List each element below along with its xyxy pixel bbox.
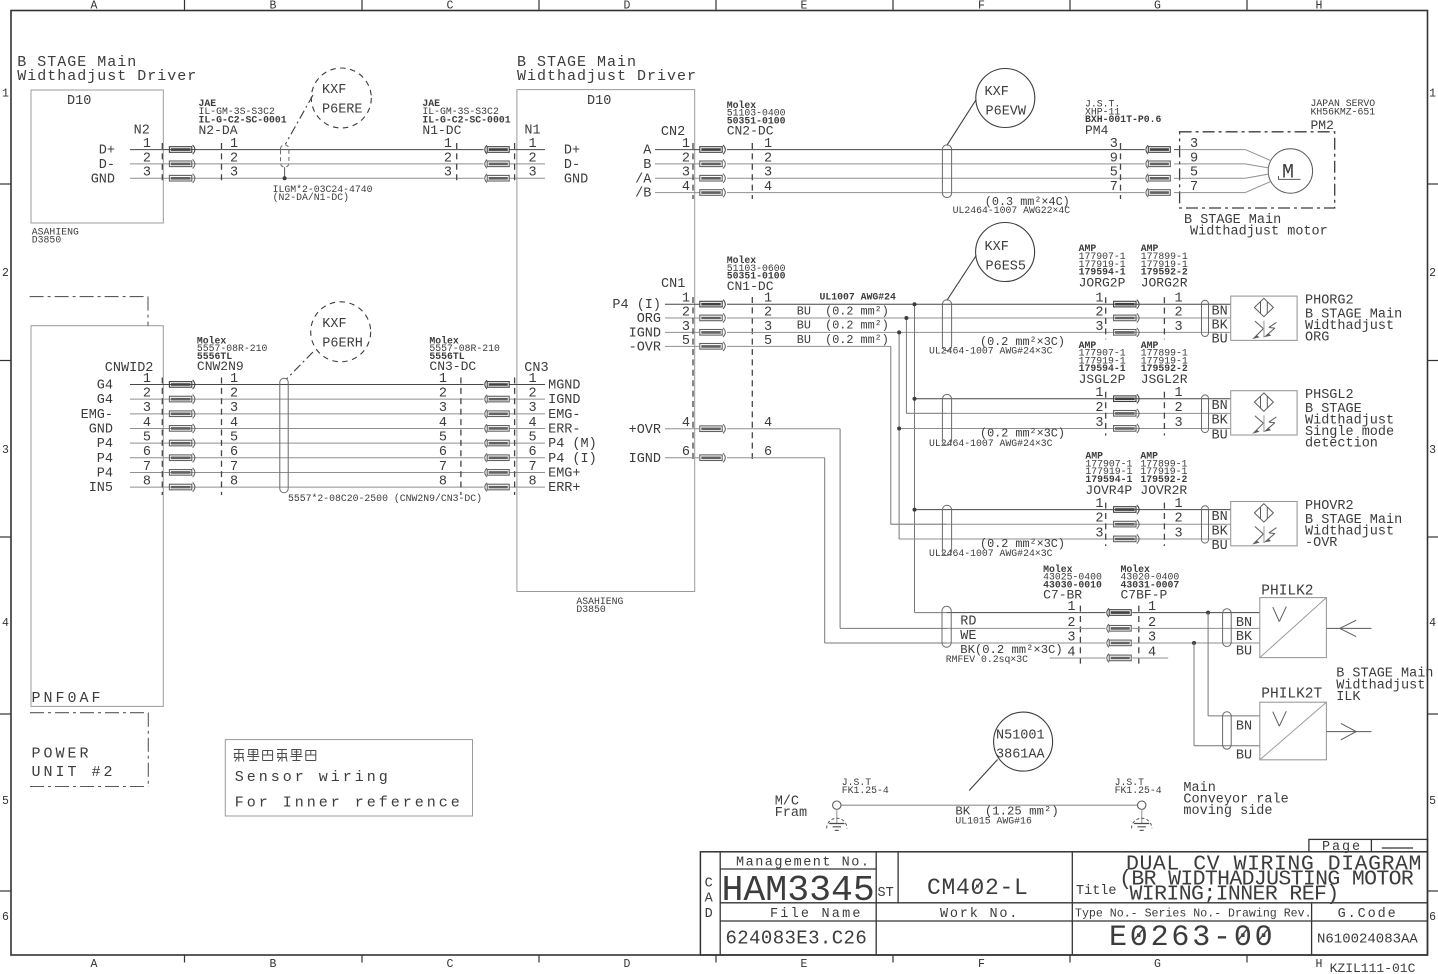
svg-text:P4 (I): P4 (I) [548,452,597,467]
svg-text:4: 4 [2,617,9,630]
svg-text:D-: D- [99,158,115,173]
svg-text:3: 3 [143,401,151,416]
svg-text:CN2-DC: CN2-DC [727,124,774,139]
svg-text:3: 3 [2,444,9,457]
svg-text:3: 3 [1175,320,1183,335]
svg-text:2: 2 [764,151,772,166]
svg-text:8: 8 [230,475,238,490]
svg-text:BU: BU [1236,748,1252,763]
svg-text:CN3-DC: CN3-DC [429,359,476,374]
svg-text:3: 3 [529,401,537,416]
svg-text:CNW2N9: CNW2N9 [197,359,244,374]
svg-text:C: C [705,877,713,892]
svg-text:PNF0AF: PNF0AF [32,690,104,707]
svg-text:5: 5 [143,431,151,446]
svg-text:Management No.: Management No. [736,856,870,871]
svg-text:BU: BU [1212,429,1228,444]
svg-text:2: 2 [1175,305,1183,320]
svg-text:IN5: IN5 [89,481,113,496]
svg-text:ILK: ILK [1336,690,1361,705]
svg-text:GND: GND [564,172,588,187]
svg-text:3: 3 [230,166,238,181]
svg-text:Sensor wiring: Sensor wiring [235,769,391,786]
svg-text:2: 2 [2,267,9,280]
svg-text:8: 8 [529,475,537,490]
svg-text:P4 (M): P4 (M) [548,437,597,452]
svg-text:Widthadjust Driver: Widthadjust Driver [517,68,697,85]
svg-text:PHSGL2: PHSGL2 [1305,388,1354,403]
svg-text:UL1015 AWG#16: UL1015 AWG#16 [955,815,1032,826]
svg-text:2: 2 [439,387,447,402]
svg-text:4: 4 [1429,617,1436,630]
svg-text:3: 3 [1429,444,1436,457]
svg-text:5: 5 [439,431,447,446]
svg-text:9: 9 [1110,151,1118,166]
svg-text:E0263-00: E0263-00 [1109,921,1275,955]
svg-text:3: 3 [1175,416,1183,431]
svg-text:3: 3 [439,401,447,416]
svg-text:2: 2 [230,151,238,166]
svg-text:PM4: PM4 [1085,123,1109,138]
svg-text:2: 2 [1175,512,1183,527]
svg-text:6: 6 [143,445,151,460]
svg-text:File Name: File Name [770,907,863,922]
svg-text:HAM3345: HAM3345 [722,870,875,911]
svg-text:A: A [91,0,98,13]
svg-text:624083E3.C26: 624083E3.C26 [726,928,868,950]
svg-text:5: 5 [230,431,238,446]
svg-text:D3850: D3850 [576,604,606,615]
svg-text:BN: BN [1236,719,1252,734]
svg-text:BK: BK [1236,630,1253,645]
svg-text:KH56KMZ-651: KH56KMZ-651 [1311,107,1376,118]
svg-text:P4: P4 [97,466,113,481]
svg-text:P4: P4 [97,437,113,452]
svg-text:F: F [978,0,985,13]
svg-text:G.Code: G.Code [1338,907,1398,922]
svg-text:(N2-DA/N1-DC): (N2-DA/N1-DC) [273,192,349,203]
svg-text:UL2464-1007 AWG#24×3C: UL2464-1007 AWG#24×3C [929,438,1053,449]
svg-text:1: 1 [1175,292,1183,307]
svg-text:PHORG2: PHORG2 [1305,294,1354,309]
svg-text:P6ES5: P6ES5 [986,260,1027,275]
svg-text:B: B [270,0,277,13]
svg-text:G: G [1154,958,1161,971]
svg-text:ST: ST [878,886,894,901]
svg-text:Title: Title [1076,884,1117,899]
svg-text:M: M [1282,162,1294,185]
svg-text:1: 1 [444,137,452,152]
svg-text:A: A [705,892,714,907]
svg-text:5557*2-08C20-2500 (CNW2N9/CN3-: 5557*2-08C20-2500 (CNW2N9/CN3-DC) [288,493,482,504]
svg-text:G4: G4 [97,379,113,394]
svg-text:KZIL111-01C: KZIL111-01C [1330,961,1416,974]
svg-text:H: H [1316,0,1323,13]
svg-text:P4: P4 [97,452,113,467]
svg-text:3: 3 [143,166,151,181]
svg-text:3: 3 [1095,416,1103,431]
svg-text:1: 1 [1175,386,1183,401]
svg-text:Fram: Fram [775,806,807,821]
svg-text:BK: BK [1212,525,1229,540]
svg-text:2: 2 [1429,267,1436,280]
svg-text:JORG2R: JORG2R [1141,276,1188,291]
svg-text:3: 3 [1095,320,1103,335]
svg-text:RMFEV 0.2sq×3C: RMFEV 0.2sq×3C [946,654,1028,665]
svg-text:8: 8 [439,475,447,490]
svg-text:C: C [447,0,454,13]
svg-text:5: 5 [1429,795,1436,808]
svg-text:4: 4 [143,416,151,431]
svg-text:Type No.- Series No.- Drawing: Type No.- Series No.- Drawing Rev. [1075,908,1312,921]
svg-text:D: D [705,907,713,922]
svg-text:KXF: KXF [985,240,1009,255]
svg-text:2: 2 [682,151,690,166]
svg-text:BU: BU [1212,539,1228,554]
svg-text:WIRING;INNER REF): WIRING;INNER REF) [1130,882,1339,906]
svg-text:3: 3 [230,401,238,416]
svg-text:UL1007 AWG#24: UL1007 AWG#24 [820,292,897,303]
svg-text:1: 1 [529,137,537,152]
svg-text:4: 4 [439,416,447,431]
svg-text:BK: BK [1212,414,1229,429]
svg-text:D: D [624,958,631,971]
svg-text:CN3: CN3 [524,361,548,376]
svg-text:ERR-: ERR- [548,422,580,437]
svg-text:3: 3 [1110,137,1118,152]
svg-text:7: 7 [143,460,151,475]
svg-text:Work No.: Work No. [940,907,1019,922]
svg-text:D+: D+ [99,144,115,159]
svg-text:CN2: CN2 [661,125,685,140]
svg-text:1: 1 [143,137,151,152]
svg-text:BU: BU [1236,644,1252,659]
svg-text:D10: D10 [67,94,91,109]
svg-text:2: 2 [1175,401,1183,416]
svg-text:EMG+: EMG+ [548,466,580,481]
svg-text:1: 1 [2,88,9,101]
svg-text:BN: BN [1212,510,1228,525]
svg-text:/B: /B [635,187,651,202]
svg-text:1: 1 [1095,292,1103,307]
svg-text:4: 4 [230,416,238,431]
svg-text:E: E [801,958,808,971]
svg-text:BN: BN [1212,305,1228,320]
svg-text:B: B [643,158,651,173]
svg-text:BU (0.2 mm²): BU (0.2 mm²) [797,319,889,333]
svg-text:PHILK2T: PHILK2T [1261,687,1322,703]
svg-text:1: 1 [1429,88,1436,101]
svg-text:UL2464-1007 AWG22×4C: UL2464-1007 AWG22×4C [953,205,1071,216]
svg-text:moving side: moving side [1183,804,1272,819]
svg-text:3: 3 [1095,526,1103,541]
svg-text:UNIT #2: UNIT #2 [32,764,116,781]
svg-text:5: 5 [2,795,9,808]
svg-text:6: 6 [2,911,9,924]
svg-text:JORG2P: JORG2P [1079,276,1126,291]
svg-text:4: 4 [682,180,690,195]
svg-text:ORG: ORG [637,312,661,327]
svg-text:GND: GND [89,422,113,437]
svg-text:FK1.25-4: FK1.25-4 [842,785,889,796]
svg-text:N51001: N51001 [996,729,1045,744]
svg-text:CM402-L: CM402-L [927,875,1029,901]
svg-text:IGND: IGND [629,326,661,341]
svg-text:RD: RD [960,615,976,630]
svg-text:1: 1 [764,137,772,152]
svg-text:2: 2 [1095,305,1103,320]
svg-text:EMG-: EMG- [548,408,580,423]
svg-text:3: 3 [764,166,772,181]
svg-text:BU (0.2 mm²): BU (0.2 mm²) [797,333,889,347]
svg-text:1: 1 [1175,497,1183,512]
svg-text:PHOVR2: PHOVR2 [1305,499,1354,514]
svg-text:1: 1 [230,137,238,152]
svg-text:JOVR4P: JOVR4P [1085,483,1132,498]
svg-text:CN1: CN1 [661,277,685,292]
svg-text:ORG: ORG [1305,331,1329,346]
svg-text:5: 5 [1110,166,1118,181]
svg-text:8: 8 [143,475,151,490]
svg-text:+OVR: +OVR [629,423,661,438]
svg-text:-OVR: -OVR [629,340,661,355]
svg-text:G: G [1154,0,1161,13]
svg-text:KXF: KXF [322,83,346,98]
svg-text:4: 4 [764,180,772,195]
svg-text:FK1.25-4: FK1.25-4 [1115,785,1162,796]
svg-text:KXF: KXF [985,85,1009,100]
svg-text:6: 6 [230,445,238,460]
svg-text:D3850: D3850 [32,235,62,246]
svg-text:BU (0.2 mm²): BU (0.2 mm²) [797,304,889,318]
svg-text:P6EVW: P6EVW [986,105,1027,120]
svg-text:CNWID2: CNWID2 [105,361,154,376]
svg-text:P4 (I): P4 (I) [612,298,661,313]
svg-text:6: 6 [1429,911,1436,924]
svg-text:3: 3 [444,166,452,181]
svg-text:5: 5 [529,431,537,446]
svg-text:For Inner reference: For Inner reference [235,795,463,812]
svg-text:3: 3 [529,166,537,181]
svg-text:MGND: MGND [548,379,580,394]
svg-text:7: 7 [529,460,537,475]
svg-text:2: 2 [230,387,238,402]
svg-text:A: A [643,144,652,159]
svg-text:D+: D+ [564,144,580,159]
svg-text:3861AA: 3861AA [996,748,1046,763]
svg-text:1: 1 [1095,386,1103,401]
svg-text:BN: BN [1212,399,1228,414]
svg-text:BU: BU [1212,333,1228,348]
svg-text:H: H [1316,958,1323,971]
svg-text:2: 2 [1095,512,1103,527]
svg-text:2: 2 [1095,401,1103,416]
svg-text:3: 3 [682,166,690,181]
svg-text:2: 2 [529,387,537,402]
svg-text:/A: /A [635,172,652,187]
svg-text:D10: D10 [587,94,611,109]
svg-text:P6ERE: P6ERE [322,103,363,118]
svg-text:detection: detection [1305,437,1378,452]
svg-text:7: 7 [230,460,238,475]
svg-text:A: A [91,958,98,971]
svg-text:JOVR2R: JOVR2R [1140,483,1187,498]
svg-text:2: 2 [444,151,452,166]
svg-text:N1-DC: N1-DC [422,123,461,138]
svg-text:Widthadjust Driver: Widthadjust Driver [17,68,197,85]
svg-text:Widthadjust motor: Widthadjust motor [1190,225,1328,240]
svg-text:7: 7 [439,460,447,475]
svg-text:2: 2 [529,151,537,166]
svg-text:EMG-: EMG- [81,408,113,423]
svg-text:-OVR: -OVR [1305,536,1337,551]
svg-text:4: 4 [529,416,537,431]
svg-text:6: 6 [529,445,537,460]
svg-text:PM2: PM2 [1311,118,1334,133]
svg-text:PHILK2: PHILK2 [1261,584,1313,600]
svg-text:F: F [978,958,985,971]
svg-text:N2-DA: N2-DA [199,123,238,138]
svg-text:BK: BK [1212,318,1229,333]
svg-text:JSGL2R: JSGL2R [1141,372,1188,387]
svg-text:IGND: IGND [629,452,661,467]
svg-text:N610024083AA: N610024083AA [1317,931,1418,947]
svg-text:IGND: IGND [548,393,580,408]
svg-text:BN: BN [1236,616,1252,631]
svg-text:1: 1 [1095,497,1103,512]
svg-text:ERR+: ERR+ [548,481,580,496]
svg-text:G4: G4 [97,393,113,408]
svg-text:UL2464-1007 AWG#24×3C: UL2464-1007 AWG#24×3C [929,548,1053,559]
svg-text:C7BF-P: C7BF-P [1121,588,1168,603]
svg-text:E: E [801,0,808,13]
svg-text:KXF: KXF [322,317,346,332]
svg-text:P6ERH: P6ERH [322,337,363,352]
svg-text:GND: GND [91,172,115,187]
svg-text:POWER: POWER [32,746,92,763]
svg-text:7: 7 [1110,180,1118,195]
svg-text:2: 2 [143,387,151,402]
svg-text:C7-BR: C7-BR [1043,588,1082,603]
svg-text:C: C [447,958,454,971]
svg-text:2: 2 [143,151,151,166]
svg-text:WE: WE [960,629,976,644]
svg-text:D-: D- [564,158,580,173]
svg-text:3: 3 [1175,526,1183,541]
svg-text:B: B [270,958,277,971]
svg-text:JSGL2P: JSGL2P [1079,372,1126,387]
svg-text:6: 6 [439,445,447,460]
svg-text:D: D [624,0,631,13]
